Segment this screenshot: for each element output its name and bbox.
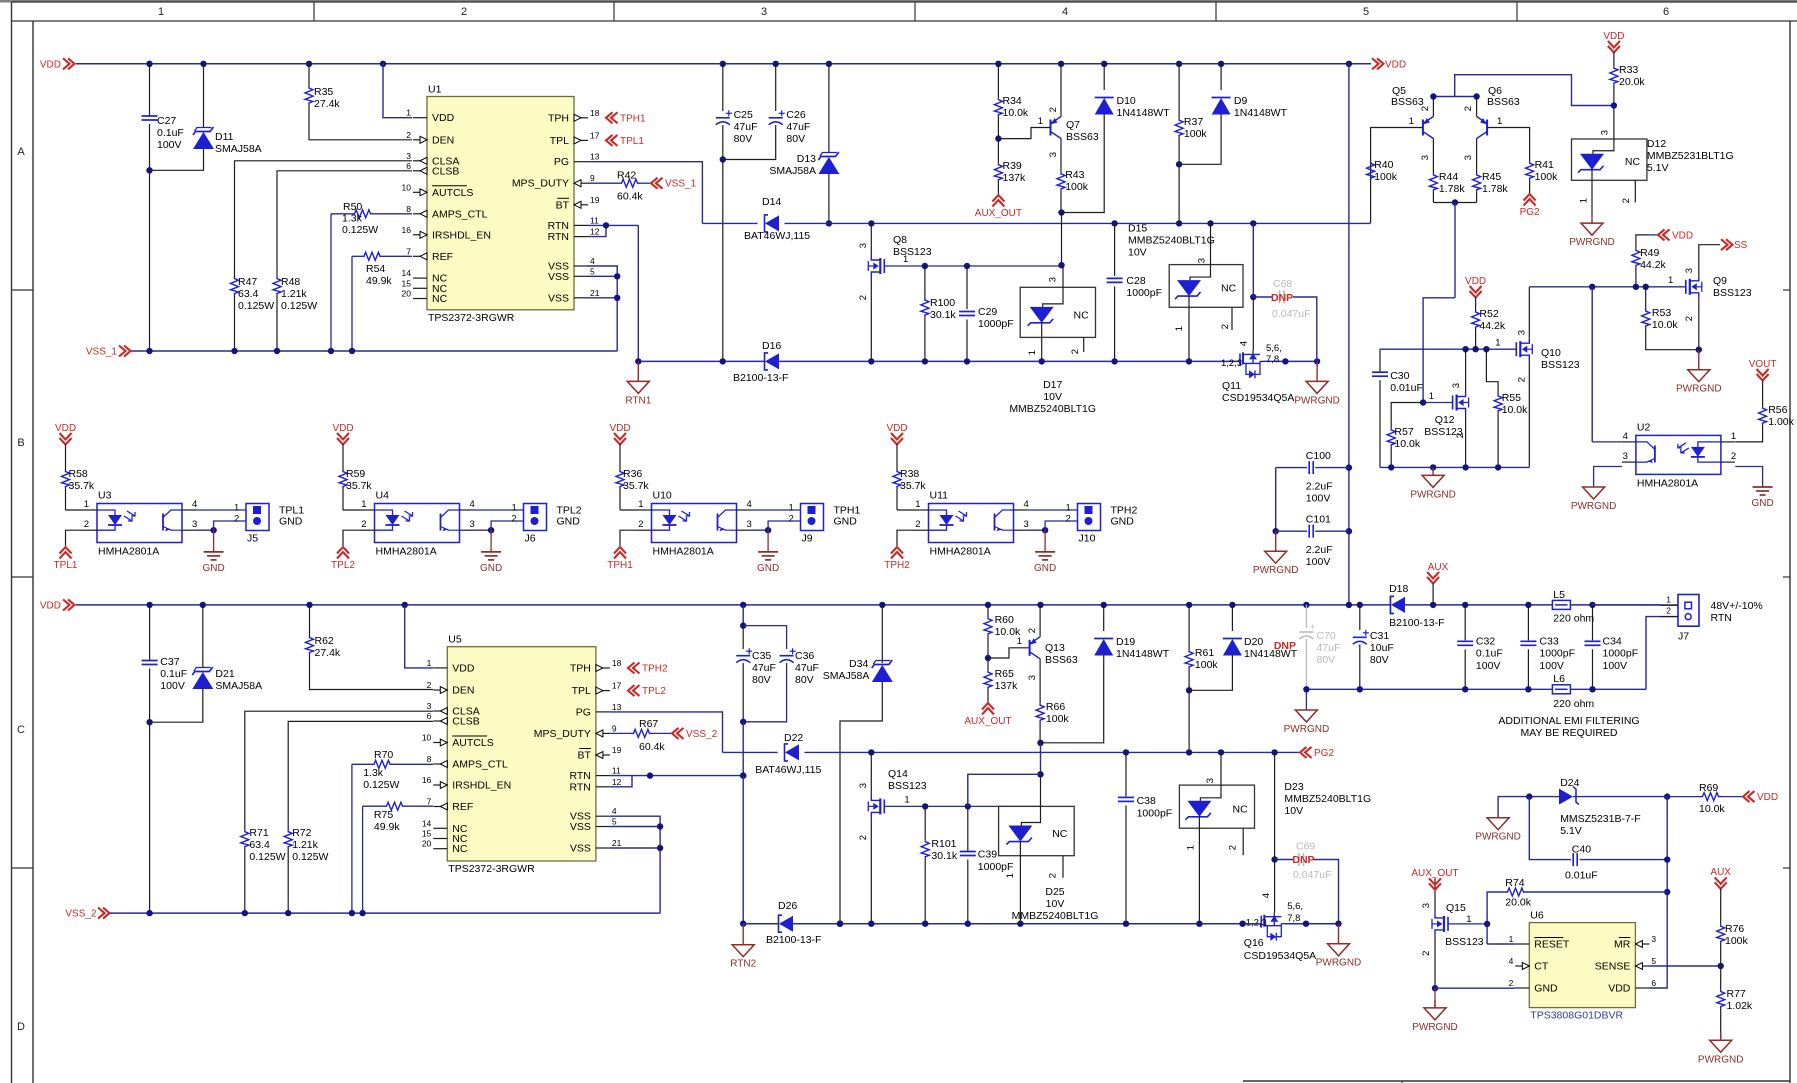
svg-text:5: 5 xyxy=(612,817,617,827)
svg-text:PWRGND: PWRGND xyxy=(1410,489,1456,500)
svg-text:3: 3 xyxy=(470,519,475,530)
svg-text:C39: C39 xyxy=(978,848,997,860)
svg-text:2: 2 xyxy=(1421,951,1432,956)
svg-text:R45: R45 xyxy=(1482,171,1501,183)
svg-text:AUX_OUT: AUX_OUT xyxy=(975,208,1022,219)
svg-text:3: 3 xyxy=(1623,451,1628,462)
svg-text:NC: NC xyxy=(1221,283,1237,295)
svg-text:D16: D16 xyxy=(762,340,781,352)
svg-text:2: 2 xyxy=(512,514,517,525)
svg-text:1000pF: 1000pF xyxy=(1137,807,1173,819)
svg-text:BAT46WJ,115: BAT46WJ,115 xyxy=(755,764,821,776)
svg-text:R62: R62 xyxy=(315,635,334,647)
svg-text:BSS123: BSS123 xyxy=(1541,359,1580,371)
svg-text:18: 18 xyxy=(612,658,622,668)
svg-text:1: 1 xyxy=(1731,431,1736,442)
svg-text:PWRGND: PWRGND xyxy=(1412,1022,1458,1033)
svg-text:0.125W: 0.125W xyxy=(363,779,399,791)
svg-text:D17: D17 xyxy=(1043,379,1062,391)
svg-text:13: 13 xyxy=(612,702,622,712)
svg-text:47uF: 47uF xyxy=(795,662,819,674)
svg-text:0.125W: 0.125W xyxy=(249,851,285,863)
svg-text:100k: 100k xyxy=(1195,659,1219,671)
svg-text:1.00k: 1.00k xyxy=(1768,416,1794,428)
svg-text:RTN: RTN xyxy=(1711,612,1732,624)
svg-text:PWRGND: PWRGND xyxy=(1676,384,1722,395)
svg-text:TPL1: TPL1 xyxy=(620,136,644,147)
svg-text:AUX_OUT: AUX_OUT xyxy=(964,716,1011,727)
svg-text:R38: R38 xyxy=(900,468,919,480)
svg-text:B2100-13-F: B2100-13-F xyxy=(766,934,821,946)
svg-text:4: 4 xyxy=(1261,893,1272,898)
svg-text:PWRGND: PWRGND xyxy=(1253,565,1299,576)
svg-text:C31: C31 xyxy=(1370,630,1389,642)
svg-text:100k: 100k xyxy=(1046,713,1070,725)
svg-text:VDD: VDD xyxy=(1757,792,1778,803)
svg-text:U3: U3 xyxy=(98,490,112,502)
svg-text:VDD: VDD xyxy=(40,59,61,70)
svg-text:R48: R48 xyxy=(281,276,300,288)
svg-text:1000pF: 1000pF xyxy=(1126,287,1162,299)
svg-text:R71: R71 xyxy=(249,827,268,839)
svg-text:2.2uF: 2.2uF xyxy=(1306,481,1333,493)
svg-text:D22: D22 xyxy=(784,732,803,744)
svg-text:2: 2 xyxy=(858,835,869,840)
svg-text:47uF: 47uF xyxy=(1317,642,1341,654)
svg-text:B: B xyxy=(17,437,24,449)
svg-text:8: 8 xyxy=(427,754,432,764)
svg-text:R44: R44 xyxy=(1439,171,1458,183)
svg-text:15: 15 xyxy=(402,278,412,288)
svg-text:1: 1 xyxy=(1579,198,1590,203)
svg-text:1: 1 xyxy=(1409,116,1414,127)
svg-text:3: 3 xyxy=(1600,130,1611,135)
svg-text:C33: C33 xyxy=(1539,636,1558,648)
svg-text:SMAJ58A: SMAJ58A xyxy=(215,143,262,155)
svg-text:44.2k: 44.2k xyxy=(1479,320,1505,332)
svg-text:BSS123: BSS123 xyxy=(1445,936,1484,948)
svg-text:9: 9 xyxy=(612,723,617,733)
svg-text:Q9: Q9 xyxy=(1713,275,1727,287)
svg-text:R42: R42 xyxy=(617,170,636,182)
svg-text:2: 2 xyxy=(1027,628,1038,633)
svg-text:100k: 100k xyxy=(1065,181,1089,193)
svg-text:35.7k: 35.7k xyxy=(69,480,95,492)
svg-text:TPL1: TPL1 xyxy=(54,560,78,571)
svg-text:1.21k: 1.21k xyxy=(281,288,307,300)
svg-text:10V: 10V xyxy=(1128,247,1147,259)
svg-text:U6: U6 xyxy=(1530,910,1544,922)
svg-text:C36: C36 xyxy=(795,650,814,662)
svg-text:19: 19 xyxy=(590,195,600,205)
svg-text:100k: 100k xyxy=(1184,128,1208,140)
svg-text:MMSZ5231B-7-F: MMSZ5231B-7-F xyxy=(1560,813,1641,825)
svg-text:TPH: TPH xyxy=(548,112,569,124)
svg-text:GND: GND xyxy=(202,563,224,574)
svg-text:0.125W: 0.125W xyxy=(342,224,378,236)
svg-text:C101: C101 xyxy=(1306,514,1331,526)
svg-text:10V: 10V xyxy=(1284,805,1303,817)
svg-text:D23: D23 xyxy=(1284,781,1303,793)
svg-text:J9: J9 xyxy=(802,533,813,545)
svg-text:VDD: VDD xyxy=(1465,276,1486,287)
svg-text:2: 2 xyxy=(427,680,432,690)
svg-text:100V: 100V xyxy=(1539,660,1564,672)
svg-text:2: 2 xyxy=(789,514,794,525)
svg-text:SMAJ58A: SMAJ58A xyxy=(769,165,816,177)
svg-text:30.1k: 30.1k xyxy=(931,850,957,862)
svg-text:R39: R39 xyxy=(1003,160,1022,172)
svg-text:MMBZ5231BLT1G: MMBZ5231BLT1G xyxy=(1647,150,1734,162)
svg-text:L5: L5 xyxy=(1553,589,1565,601)
svg-text:1: 1 xyxy=(1005,873,1016,878)
svg-text:4: 4 xyxy=(192,499,197,510)
svg-text:CLSB: CLSB xyxy=(432,165,459,177)
svg-text:16: 16 xyxy=(422,775,432,785)
svg-text:2: 2 xyxy=(361,519,366,530)
svg-text:10V: 10V xyxy=(1046,898,1065,910)
svg-text:44.2k: 44.2k xyxy=(1640,259,1666,271)
svg-text:R61: R61 xyxy=(1195,647,1214,659)
svg-text:0.047uF: 0.047uF xyxy=(1272,308,1311,320)
svg-text:1: 1 xyxy=(1497,116,1502,127)
svg-text:AUX: AUX xyxy=(1710,867,1731,878)
svg-text:10.0k: 10.0k xyxy=(1652,319,1678,331)
svg-text:6: 6 xyxy=(427,711,432,721)
svg-text:1: 1 xyxy=(1495,338,1500,349)
svg-text:2: 2 xyxy=(1463,106,1474,111)
svg-text:80V: 80V xyxy=(752,674,771,686)
svg-text:U5: U5 xyxy=(448,634,462,646)
svg-text:R66: R66 xyxy=(1046,701,1065,713)
svg-text:35.7k: 35.7k xyxy=(900,480,926,492)
svg-text:1.78k: 1.78k xyxy=(1482,183,1508,195)
svg-text:7,8: 7,8 xyxy=(1266,354,1279,365)
svg-text:VDD: VDD xyxy=(609,423,630,434)
svg-text:PG2: PG2 xyxy=(1520,207,1540,218)
svg-text:C29: C29 xyxy=(978,306,997,318)
svg-text:10.0k: 10.0k xyxy=(1699,803,1725,815)
svg-text:J6: J6 xyxy=(525,533,536,545)
svg-text:220 ohm: 220 ohm xyxy=(1553,698,1594,710)
svg-text:C69: C69 xyxy=(1296,841,1315,853)
svg-text:3: 3 xyxy=(858,243,869,248)
svg-text:GND: GND xyxy=(480,563,502,574)
svg-text:BSS123: BSS123 xyxy=(1713,287,1752,299)
svg-text:A: A xyxy=(17,146,25,158)
svg-text:RTN1: RTN1 xyxy=(625,395,651,406)
svg-text:0.125W: 0.125W xyxy=(238,300,274,312)
svg-text:RTN2: RTN2 xyxy=(730,959,756,970)
svg-text:11: 11 xyxy=(590,215,599,225)
svg-text:R34: R34 xyxy=(1003,95,1022,107)
svg-text:VDD: VDD xyxy=(886,423,907,434)
svg-text:SMAJ58A: SMAJ58A xyxy=(215,680,262,692)
svg-text:100V: 100V xyxy=(1306,556,1331,568)
svg-text:3: 3 xyxy=(1048,277,1059,282)
svg-text:2: 2 xyxy=(461,6,467,18)
svg-text:48V+/-10%: 48V+/-10% xyxy=(1711,600,1763,612)
svg-text:C25: C25 xyxy=(734,109,753,121)
svg-text:1: 1 xyxy=(915,499,920,510)
svg-text:AUX: AUX xyxy=(1428,562,1449,573)
svg-text:47uF: 47uF xyxy=(734,121,758,133)
svg-text:J5: J5 xyxy=(247,533,258,545)
svg-text:13: 13 xyxy=(590,152,600,162)
svg-text:BSS63: BSS63 xyxy=(1045,654,1078,666)
svg-text:12: 12 xyxy=(590,227,600,237)
svg-text:5: 5 xyxy=(1651,956,1656,966)
svg-text:35.7k: 35.7k xyxy=(623,480,649,492)
svg-text:80V: 80V xyxy=(795,674,814,686)
svg-text:R60: R60 xyxy=(995,614,1014,626)
svg-text:R76: R76 xyxy=(1725,923,1744,935)
svg-text:27.4k: 27.4k xyxy=(315,647,341,659)
svg-text:49.9k: 49.9k xyxy=(374,821,400,833)
svg-text:MAY BE REQUIRED: MAY BE REQUIRED xyxy=(1520,727,1617,739)
svg-text:MPS_DUTY: MPS_DUTY xyxy=(512,178,569,190)
svg-text:16: 16 xyxy=(402,225,412,235)
svg-text:1.3k: 1.3k xyxy=(342,213,363,225)
svg-text:C37: C37 xyxy=(160,656,179,668)
svg-text:C: C xyxy=(17,724,25,736)
svg-text:5,6,: 5,6, xyxy=(1287,901,1303,912)
svg-text:27.4k: 27.4k xyxy=(314,98,340,110)
svg-text:HMHA2801A: HMHA2801A xyxy=(376,546,437,558)
svg-text:R70: R70 xyxy=(374,749,393,761)
svg-text:U11: U11 xyxy=(930,490,949,502)
svg-text:DNP: DNP xyxy=(1271,292,1293,304)
svg-text:R54: R54 xyxy=(366,263,385,275)
svg-text:1: 1 xyxy=(1017,636,1022,647)
svg-text:35.7k: 35.7k xyxy=(346,480,372,492)
svg-text:3: 3 xyxy=(406,151,411,161)
svg-text:60.4k: 60.4k xyxy=(617,191,643,203)
svg-text:VSS_2: VSS_2 xyxy=(686,729,718,740)
svg-text:14: 14 xyxy=(402,268,412,278)
svg-text:VDD: VDD xyxy=(1672,230,1693,241)
svg-text:1: 1 xyxy=(1509,934,1514,944)
svg-text:3: 3 xyxy=(747,519,752,530)
svg-text:3: 3 xyxy=(1421,903,1432,908)
svg-text:PG: PG xyxy=(576,706,591,718)
svg-text:Q12: Q12 xyxy=(1435,414,1455,426)
svg-text:100k: 100k xyxy=(1725,935,1749,947)
svg-text:2: 2 xyxy=(638,519,643,530)
svg-text:AUTCLS: AUTCLS xyxy=(432,187,473,199)
svg-text:10.0k: 10.0k xyxy=(1003,107,1029,119)
svg-text:C30: C30 xyxy=(1390,370,1409,382)
svg-text:1: 1 xyxy=(84,499,89,510)
svg-text:1: 1 xyxy=(234,503,239,514)
svg-text:5.1V: 5.1V xyxy=(1560,825,1582,837)
svg-text:D10: D10 xyxy=(1117,95,1136,107)
svg-text:D26: D26 xyxy=(778,900,797,912)
svg-text:HMHA2801A: HMHA2801A xyxy=(930,546,991,558)
svg-text:5,6,: 5,6, xyxy=(1266,343,1282,354)
svg-text:2: 2 xyxy=(84,519,89,530)
svg-text:5: 5 xyxy=(590,266,595,276)
svg-text:TPL2: TPL2 xyxy=(642,686,666,697)
svg-text:J10: J10 xyxy=(1079,533,1096,545)
svg-text:R53: R53 xyxy=(1652,307,1671,319)
svg-text:R33: R33 xyxy=(1619,64,1638,76)
svg-text:TPL: TPL xyxy=(550,135,569,147)
svg-text:BSS123: BSS123 xyxy=(888,780,927,792)
svg-text:GND: GND xyxy=(834,516,858,528)
svg-text:2: 2 xyxy=(1228,845,1239,850)
svg-text:100V: 100V xyxy=(1476,660,1501,672)
svg-text:2: 2 xyxy=(1684,316,1695,321)
svg-text:R75: R75 xyxy=(374,809,393,821)
svg-text:100V: 100V xyxy=(1306,493,1331,505)
svg-text:R59: R59 xyxy=(346,468,365,480)
svg-text:RTN: RTN xyxy=(548,231,569,243)
svg-text:4: 4 xyxy=(1062,6,1068,18)
svg-text:3: 3 xyxy=(1048,152,1059,157)
svg-text:C34: C34 xyxy=(1603,636,1622,648)
svg-text:7,8: 7,8 xyxy=(1287,913,1300,924)
svg-text:BT: BT xyxy=(577,750,591,762)
svg-text:R57: R57 xyxy=(1394,426,1413,438)
svg-text:1000pF: 1000pF xyxy=(1603,648,1639,660)
svg-text:BSS63: BSS63 xyxy=(1391,96,1424,108)
svg-text:19: 19 xyxy=(612,745,622,755)
svg-text:TPH1: TPH1 xyxy=(607,560,633,571)
svg-text:TPH1: TPH1 xyxy=(620,113,646,124)
svg-text:20: 20 xyxy=(402,289,412,299)
svg-text:BSS63: BSS63 xyxy=(1487,96,1520,108)
svg-text:63.4: 63.4 xyxy=(249,839,270,851)
svg-text:REF: REF xyxy=(432,251,453,263)
svg-text:VDD: VDD xyxy=(40,600,61,611)
svg-text:BSS63: BSS63 xyxy=(1066,131,1099,143)
svg-text:47uF: 47uF xyxy=(752,662,776,674)
svg-text:U10: U10 xyxy=(653,490,672,502)
svg-text:80V: 80V xyxy=(786,133,805,145)
svg-text:VOUT: VOUT xyxy=(1749,359,1777,370)
svg-text:R41: R41 xyxy=(1535,159,1554,171)
svg-text:PG2: PG2 xyxy=(1314,748,1334,759)
svg-text:17: 17 xyxy=(612,681,622,691)
svg-text:TPS2372-3RGWR: TPS2372-3RGWR xyxy=(428,312,515,324)
svg-text:R55: R55 xyxy=(1502,392,1521,404)
svg-text:1: 1 xyxy=(1066,503,1071,514)
svg-text:R43: R43 xyxy=(1065,169,1084,181)
svg-text:12: 12 xyxy=(612,777,622,787)
svg-text:DEN: DEN xyxy=(432,134,454,146)
svg-text:4: 4 xyxy=(470,499,475,510)
svg-text:VDD: VDD xyxy=(1385,59,1406,70)
svg-text:MMBZ5240BLT1G: MMBZ5240BLT1G xyxy=(1128,235,1215,247)
svg-text:17: 17 xyxy=(590,130,600,140)
svg-text:PWRGND: PWRGND xyxy=(1294,395,1340,406)
svg-text:D20: D20 xyxy=(1244,636,1263,648)
svg-text:49.9k: 49.9k xyxy=(366,275,392,287)
svg-text:2: 2 xyxy=(1516,377,1527,382)
svg-text:D9: D9 xyxy=(1234,95,1248,107)
svg-text:100V: 100V xyxy=(160,680,185,692)
svg-text:HMHA2801A: HMHA2801A xyxy=(653,546,714,558)
svg-text:B2100-13-F: B2100-13-F xyxy=(1389,617,1444,629)
svg-text:NC: NC xyxy=(1233,803,1249,815)
svg-text:NC: NC xyxy=(1625,156,1641,168)
svg-text:PG: PG xyxy=(554,156,569,168)
svg-text:1: 1 xyxy=(512,503,517,514)
svg-text:VSS: VSS xyxy=(548,292,569,304)
svg-text:IRSHDL_EN: IRSHDL_EN xyxy=(452,780,511,792)
svg-text:DNP: DNP xyxy=(1274,640,1296,652)
svg-text:20.0k: 20.0k xyxy=(1505,897,1531,909)
svg-text:B2100-13-F: B2100-13-F xyxy=(733,372,788,384)
svg-text:GND: GND xyxy=(279,516,303,528)
svg-text:BAT46WJ,115: BAT46WJ,115 xyxy=(744,230,810,242)
svg-text:D18: D18 xyxy=(1389,583,1408,595)
svg-text:VDD: VDD xyxy=(55,423,76,434)
svg-text:1000pF: 1000pF xyxy=(978,861,1014,873)
svg-text:1: 1 xyxy=(1038,116,1043,127)
svg-text:0.1uF: 0.1uF xyxy=(1476,648,1503,660)
svg-text:21: 21 xyxy=(612,838,622,848)
svg-text:TPS3808G01DBVR: TPS3808G01DBVR xyxy=(1530,1010,1623,1022)
svg-text:VSS: VSS xyxy=(548,271,569,283)
svg-text:18: 18 xyxy=(590,108,600,118)
svg-text:MPS_DUTY: MPS_DUTY xyxy=(534,728,591,740)
svg-text:SENSE: SENSE xyxy=(1595,961,1631,973)
svg-text:RTN: RTN xyxy=(570,770,591,782)
svg-text:PWRGND: PWRGND xyxy=(1571,501,1617,512)
svg-text:20.0k: 20.0k xyxy=(1619,76,1645,88)
svg-text:D25: D25 xyxy=(1045,886,1064,898)
svg-text:47uF: 47uF xyxy=(786,121,810,133)
svg-text:3: 3 xyxy=(1516,330,1527,335)
svg-text:AMPS_CTL: AMPS_CTL xyxy=(452,759,508,771)
svg-text:3: 3 xyxy=(1651,934,1656,944)
svg-text:VSS_1: VSS_1 xyxy=(665,179,697,190)
svg-text:1N4148WT: 1N4148WT xyxy=(1116,648,1170,660)
svg-text:R69: R69 xyxy=(1699,782,1718,794)
svg-text:10: 10 xyxy=(422,733,432,743)
svg-text:VSS: VSS xyxy=(570,843,591,855)
svg-text:R49: R49 xyxy=(1640,247,1659,259)
svg-text:SMAJ58A: SMAJ58A xyxy=(823,670,870,682)
svg-text:MR: MR xyxy=(1614,939,1631,951)
svg-text:NC: NC xyxy=(1052,828,1068,840)
svg-text:10V: 10V xyxy=(1043,391,1062,403)
svg-text:SS: SS xyxy=(1734,240,1748,251)
svg-text:100V: 100V xyxy=(157,139,182,151)
svg-text:100k: 100k xyxy=(1374,171,1398,183)
svg-text:3: 3 xyxy=(1205,778,1216,783)
svg-text:VDD: VDD xyxy=(1608,983,1631,995)
svg-text:3: 3 xyxy=(1197,258,1208,263)
svg-text:Q16: Q16 xyxy=(1244,937,1264,949)
svg-text:2: 2 xyxy=(1047,873,1058,878)
svg-text:3: 3 xyxy=(427,701,432,711)
svg-text:3: 3 xyxy=(1420,155,1431,160)
svg-text:+: + xyxy=(1310,622,1315,632)
svg-text:IRSHDL_EN: IRSHDL_EN xyxy=(432,229,491,241)
svg-text:U2: U2 xyxy=(1637,421,1651,433)
svg-text:1: 1 xyxy=(638,499,643,510)
svg-text:4: 4 xyxy=(1509,956,1514,966)
svg-text:BT: BT xyxy=(556,199,570,211)
svg-text:TPS2372-3RGWR: TPS2372-3RGWR xyxy=(448,863,535,875)
svg-text:3: 3 xyxy=(858,783,869,788)
svg-text:1,2,3: 1,2,3 xyxy=(1221,358,1242,369)
svg-text:1: 1 xyxy=(789,503,794,514)
svg-text:0.125W: 0.125W xyxy=(292,851,328,863)
